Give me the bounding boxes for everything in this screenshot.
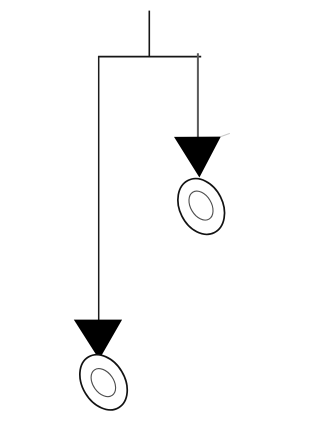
ring outer left [70, 346, 137, 418]
wire top feed [148, 11, 150, 58]
ring inner right [184, 187, 218, 225]
wire left branch [98, 56, 100, 320]
wire horizontal bus [98, 56, 201, 58]
arrowhead left [74, 320, 122, 360]
arrowhead right [174, 137, 221, 178]
ring inner left [86, 364, 121, 401]
tick at arrowhead right shoulder [221, 133, 230, 136]
wire right branch [197, 53, 199, 137]
ring outer right [169, 171, 234, 243]
